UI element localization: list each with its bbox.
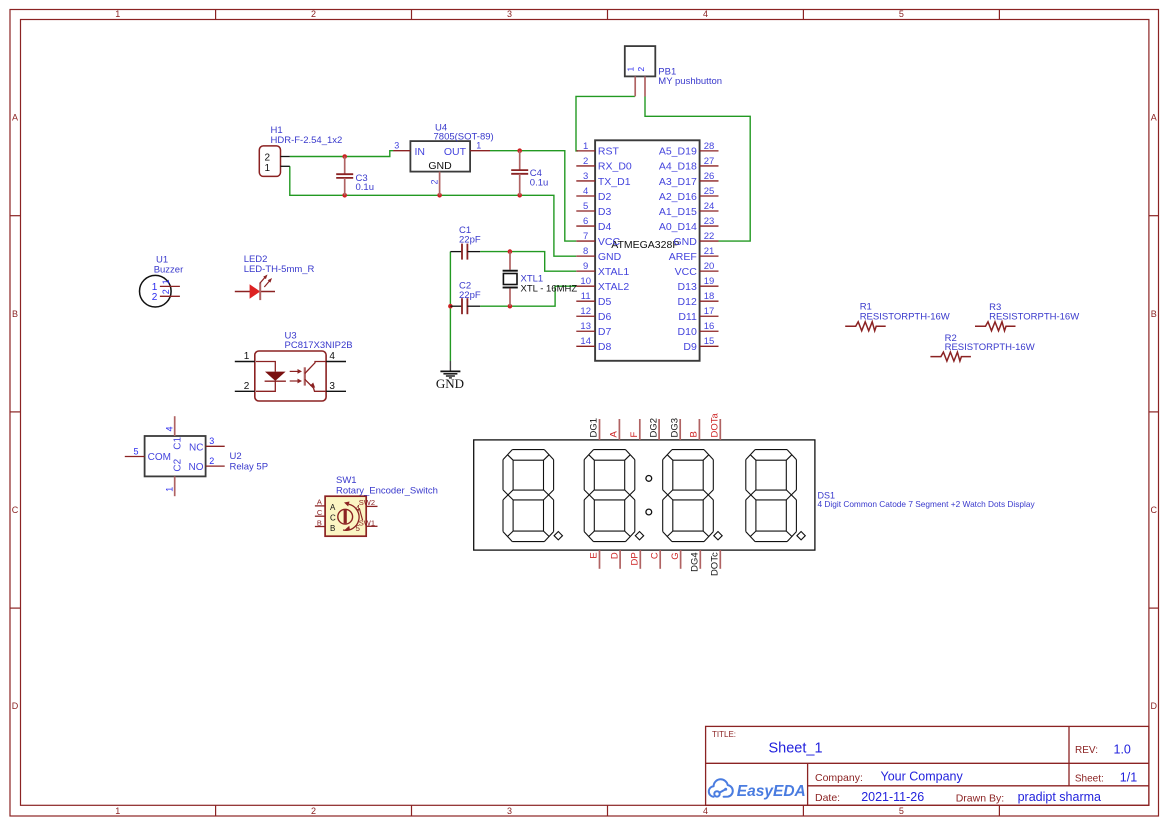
svg-text:7805(SOT-89): 7805(SOT-89) xyxy=(434,131,494,142)
resistor R2 xyxy=(930,333,1034,361)
svg-text:8: 8 xyxy=(583,246,588,257)
svg-text:RX_D0: RX_D0 xyxy=(598,161,632,173)
svg-text:15: 15 xyxy=(704,336,715,347)
pin B xyxy=(698,419,700,440)
pin 1 xyxy=(235,361,255,363)
svg-text:2: 2 xyxy=(311,806,316,816)
svg-text:4: 4 xyxy=(583,186,588,197)
pin C xyxy=(315,515,325,517)
svg-text:D12: D12 xyxy=(678,296,697,308)
svg-text:18: 18 xyxy=(704,291,715,302)
svg-text:25: 25 xyxy=(704,186,715,197)
svg-text:A1_D15: A1_D15 xyxy=(659,206,697,218)
display DS1 4-digit 7-segment xyxy=(474,413,1036,577)
ground GND xyxy=(436,361,464,391)
pin DOTa xyxy=(719,419,721,440)
pin 9 XTAL1 xyxy=(576,270,595,272)
svg-text:5: 5 xyxy=(583,201,588,212)
svg-text:B: B xyxy=(12,309,18,319)
pin SW1 xyxy=(366,525,377,527)
pin 24 A1_D15 xyxy=(700,210,719,212)
pin DP xyxy=(639,550,641,569)
svg-text:4: 4 xyxy=(703,9,708,19)
svg-text:XTAL2: XTAL2 xyxy=(598,281,629,293)
svg-text:C: C xyxy=(317,508,323,517)
svg-text:0.1u: 0.1u xyxy=(356,182,375,193)
svg-text:LED-TH-5mm_R: LED-TH-5mm_R xyxy=(244,264,315,275)
svg-text:3: 3 xyxy=(329,381,335,392)
svg-text:EasyEDA: EasyEDA xyxy=(737,783,806,800)
svg-text:TX_D1: TX_D1 xyxy=(598,176,631,188)
svg-text:RESISTORPTH-16W: RESISTORPTH-16W xyxy=(945,342,1035,353)
svg-text:2: 2 xyxy=(429,179,439,184)
svg-text:VCC: VCC xyxy=(675,266,698,278)
LED LED2 xyxy=(235,254,315,300)
crystal XTL1 xyxy=(503,252,578,307)
junction xyxy=(517,148,522,153)
pin 2 xyxy=(235,390,255,392)
svg-text:DG4: DG4 xyxy=(690,552,701,572)
svg-text:ATMEGA328P: ATMEGA328P xyxy=(611,239,679,251)
pin 15 D9 xyxy=(700,345,719,347)
svg-text:C: C xyxy=(649,552,660,559)
svg-text:GND: GND xyxy=(436,376,464,391)
svg-text:3: 3 xyxy=(209,436,214,446)
colon dots xyxy=(646,476,652,482)
svg-text:5: 5 xyxy=(899,806,904,816)
svg-text:1: 1 xyxy=(165,487,175,492)
svg-text:COM: COM xyxy=(148,452,171,463)
svg-text:C2: C2 xyxy=(172,458,183,471)
svg-text:Buzzer: Buzzer xyxy=(154,264,184,275)
pin 5 xyxy=(125,456,145,458)
svg-text:1: 1 xyxy=(626,67,636,72)
svg-text:4: 4 xyxy=(329,351,335,362)
pin SW2 xyxy=(366,505,377,507)
svg-text:13: 13 xyxy=(580,321,591,332)
svg-text:27: 27 xyxy=(704,156,715,167)
svg-text:GND: GND xyxy=(598,251,622,263)
svg-text:Sheet:: Sheet: xyxy=(1075,773,1104,784)
wire PB1 pin1 to RST xyxy=(576,96,635,150)
svg-text:26: 26 xyxy=(704,171,715,182)
svg-text:D5: D5 xyxy=(598,296,612,308)
svg-text:3: 3 xyxy=(507,806,512,816)
pin 26 A3_D17 xyxy=(700,180,719,182)
svg-text:1/1: 1/1 xyxy=(1120,770,1137,784)
junction xyxy=(508,249,513,254)
svg-text:5: 5 xyxy=(899,9,904,19)
pin 14 D8 xyxy=(576,345,595,347)
junction xyxy=(448,304,453,309)
svg-text:D4: D4 xyxy=(598,221,612,233)
svg-text:19: 19 xyxy=(704,276,715,287)
svg-text:A0_D14: A0_D14 xyxy=(659,221,697,233)
svg-text:23: 23 xyxy=(704,216,715,227)
buzzer U1 xyxy=(140,255,184,308)
junction xyxy=(437,193,442,198)
svg-text:D: D xyxy=(609,552,620,559)
pin E xyxy=(599,550,601,569)
digit at 584 xyxy=(594,449,626,451)
svg-text:XTAL1: XTAL1 xyxy=(598,266,629,278)
svg-text:A3_D17: A3_D17 xyxy=(659,176,697,188)
capacitor C4 xyxy=(511,151,548,196)
svg-text:2: 2 xyxy=(161,289,171,294)
svg-text:0.1u: 0.1u xyxy=(530,177,549,188)
svg-text:2: 2 xyxy=(244,381,250,392)
svg-text:Drawn By:: Drawn By: xyxy=(956,792,1004,804)
svg-text:22pF: 22pF xyxy=(459,290,481,301)
svg-text:B: B xyxy=(689,431,700,437)
pin 11 D5 xyxy=(576,300,595,302)
pin 7 VCC xyxy=(576,240,595,242)
svg-text:7: 7 xyxy=(583,231,588,242)
svg-text:14: 14 xyxy=(580,336,591,347)
svg-text:2021-11-26: 2021-11-26 xyxy=(861,790,924,804)
svg-text:A: A xyxy=(330,503,336,512)
svg-text:24: 24 xyxy=(704,201,715,212)
svg-text:2: 2 xyxy=(152,292,158,303)
svg-text:PC817X3NIP2B: PC817X3NIP2B xyxy=(285,340,353,351)
svg-text:3: 3 xyxy=(507,9,512,19)
pin A xyxy=(315,505,325,507)
connector H1 xyxy=(259,125,342,176)
svg-text:SW2: SW2 xyxy=(359,498,375,507)
svg-text:1: 1 xyxy=(244,351,250,362)
pin 8 GND xyxy=(576,255,595,257)
pin 3 TX_D1 xyxy=(576,180,595,182)
svg-text:17: 17 xyxy=(704,306,715,317)
pin 1 RST xyxy=(576,150,595,152)
svg-text:XTL - 16MHZ: XTL - 16MHZ xyxy=(521,283,578,294)
svg-text:20: 20 xyxy=(704,261,715,272)
pin 4 xyxy=(326,361,346,363)
svg-text:NC: NC xyxy=(189,442,203,453)
microcontroller U ATMEGA328P xyxy=(576,140,718,360)
pin 27 A4_D18 xyxy=(700,165,719,167)
EasyEDA logo xyxy=(709,779,733,797)
svg-text:D8: D8 xyxy=(598,341,612,353)
svg-text:SW1: SW1 xyxy=(336,475,357,486)
svg-text:22pF: 22pF xyxy=(459,234,481,245)
svg-text:11: 11 xyxy=(581,291,591,302)
capacitor C1 xyxy=(450,225,480,260)
wire PB1 pin2 to GND pin22 xyxy=(645,96,750,241)
pin 12 D6 xyxy=(576,315,595,317)
svg-text:C: C xyxy=(12,505,19,515)
svg-text:A: A xyxy=(12,113,18,123)
junction xyxy=(342,193,347,198)
svg-text:1.0: 1.0 xyxy=(1114,743,1131,757)
svg-text:RESISTORPTH-16W: RESISTORPTH-16W xyxy=(860,311,950,322)
svg-text:A2_D16: A2_D16 xyxy=(659,191,697,203)
svg-text:4: 4 xyxy=(703,806,708,816)
svg-text:21: 21 xyxy=(704,246,715,257)
junction xyxy=(508,304,513,309)
svg-text:Sheet_1: Sheet_1 xyxy=(769,741,823,757)
pin B xyxy=(315,526,325,528)
pin 1 xyxy=(174,476,176,496)
regulator U4 7805 xyxy=(393,122,494,195)
junction xyxy=(342,154,347,159)
pin F xyxy=(639,419,641,440)
pin DG2 xyxy=(658,419,660,440)
pin 23 A0_D14 xyxy=(700,225,719,227)
pin 10 XTAL2 xyxy=(576,285,595,287)
svg-text:GND: GND xyxy=(428,160,452,172)
svg-text:SW1: SW1 xyxy=(359,518,375,527)
svg-text:2: 2 xyxy=(583,156,588,167)
svg-text:A: A xyxy=(609,431,620,438)
svg-text:DOTa: DOTa xyxy=(710,413,721,438)
svg-text:VCC: VCC xyxy=(598,236,621,248)
title block xyxy=(706,726,1149,805)
digit at 745.6 xyxy=(755,449,787,451)
pin 5 D3 xyxy=(576,210,595,212)
svg-text:DG2: DG2 xyxy=(648,418,659,438)
svg-text:DOTc: DOTc xyxy=(710,552,721,576)
svg-text:OUT: OUT xyxy=(444,146,467,158)
svg-text:MY pushbutton: MY pushbutton xyxy=(658,76,722,87)
optocoupler U3 xyxy=(235,331,353,402)
svg-text:2: 2 xyxy=(209,456,214,466)
pin 3 xyxy=(326,390,346,392)
pin 3 xyxy=(206,445,225,447)
svg-text:F: F xyxy=(629,432,640,438)
pin 2 xyxy=(206,465,225,467)
svg-text:D7: D7 xyxy=(598,326,612,338)
pin DG1 xyxy=(599,419,601,440)
svg-text:16: 16 xyxy=(704,321,715,332)
pin 21 AREF xyxy=(700,255,719,257)
pin 4 xyxy=(174,416,176,436)
svg-text:5: 5 xyxy=(133,446,138,456)
wire C2 to XTAL2 pin10 xyxy=(480,286,576,306)
svg-text:IN: IN xyxy=(415,146,426,158)
wire C1 to XTAL1 pin9 xyxy=(480,252,576,272)
resistor R3 xyxy=(975,302,1079,331)
svg-text:C: C xyxy=(330,513,336,522)
svg-text:B: B xyxy=(330,524,335,533)
svg-text:DP: DP xyxy=(630,552,641,565)
svg-text:1: 1 xyxy=(583,141,588,152)
svg-text:1: 1 xyxy=(115,9,120,19)
svg-text:Your Company: Your Company xyxy=(881,770,964,784)
svg-text:A: A xyxy=(317,498,322,507)
svg-text:D2: D2 xyxy=(598,191,612,203)
svg-text:Relay 5P: Relay 5P xyxy=(230,462,269,473)
svg-text:10: 10 xyxy=(580,276,591,287)
pin 1 xyxy=(470,150,490,152)
pin 19 D13 xyxy=(700,285,719,287)
svg-text:12: 12 xyxy=(580,306,591,317)
rotary encoder SW1 xyxy=(315,475,438,536)
svg-text:2: 2 xyxy=(311,9,316,19)
svg-text:A4_D18: A4_D18 xyxy=(659,161,697,173)
svg-text:pradipt sharma: pradipt sharma xyxy=(1018,790,1101,804)
relay U2 xyxy=(125,416,268,496)
pushbutton PB1 xyxy=(625,46,722,96)
pin 6 D4 xyxy=(576,225,595,227)
svg-text:3: 3 xyxy=(583,171,588,182)
svg-text:4: 4 xyxy=(165,426,175,431)
svg-text:6: 6 xyxy=(583,216,588,227)
digit at 662.5 xyxy=(672,449,704,451)
svg-text:1: 1 xyxy=(115,806,120,816)
svg-text:D11: D11 xyxy=(678,311,697,323)
svg-text:D9: D9 xyxy=(683,341,697,353)
pin DG3 xyxy=(679,419,681,440)
svg-text:22: 22 xyxy=(704,231,715,242)
svg-text:B: B xyxy=(1151,309,1157,319)
svg-text:E: E xyxy=(589,552,600,558)
svg-text:DG3: DG3 xyxy=(669,418,680,438)
svg-text:9: 9 xyxy=(583,261,588,272)
svg-text:1: 1 xyxy=(161,279,171,284)
svg-text:U2: U2 xyxy=(230,451,242,462)
svg-text:RESISTORPTH-16W: RESISTORPTH-16W xyxy=(989,311,1079,322)
pin 3 xyxy=(393,150,410,152)
pin A xyxy=(618,419,620,440)
wire H1 pin2 to U4 IN xyxy=(290,151,394,157)
svg-text:2: 2 xyxy=(636,67,646,72)
svg-text:Date:: Date: xyxy=(815,792,840,804)
resistor R1 xyxy=(845,302,950,331)
svg-text:A5_D19: A5_D19 xyxy=(659,146,697,158)
junction xyxy=(517,193,522,198)
svg-text:RST: RST xyxy=(598,146,620,158)
svg-text:G: G xyxy=(670,552,681,559)
svg-text:C: C xyxy=(1150,505,1157,515)
pin C xyxy=(659,550,661,569)
pin 2 xyxy=(439,172,441,196)
pin 13 D7 xyxy=(576,330,595,332)
svg-text:HDR-F-2.54_1x2: HDR-F-2.54_1x2 xyxy=(271,135,343,146)
pin 20 VCC xyxy=(700,270,719,272)
svg-text:DG1: DG1 xyxy=(589,418,600,438)
svg-text:D10: D10 xyxy=(678,326,697,338)
svg-text:Company:: Company: xyxy=(815,772,863,784)
svg-text:REV:: REV: xyxy=(1075,745,1098,756)
svg-text:D: D xyxy=(12,701,19,711)
svg-text:D3: D3 xyxy=(598,206,612,218)
pin DOTc xyxy=(719,550,721,569)
wire capacitor rail to ground xyxy=(449,252,451,361)
wire ground rail to GND pin8 xyxy=(290,166,577,256)
pin G xyxy=(680,550,682,569)
pin 17 D11 xyxy=(700,315,719,317)
pin D xyxy=(619,550,621,569)
svg-text:NO: NO xyxy=(189,462,204,473)
svg-text:Rotary_Encoder_Switch: Rotary_Encoder_Switch xyxy=(336,486,438,497)
wire U4 OUT to VCC pin7 xyxy=(490,151,576,241)
svg-text:TITLE:: TITLE: xyxy=(712,730,736,739)
pin DG4 xyxy=(699,550,701,569)
pin 18 D12 xyxy=(700,300,719,302)
svg-text:4 Digit Common Catode 7 Segmen: 4 Digit Common Catode 7 Segment +2 Watch… xyxy=(818,499,1036,509)
digit at 502.8 xyxy=(512,449,544,451)
svg-text:AREF: AREF xyxy=(669,251,697,263)
pin 28 A5_D19 xyxy=(700,150,719,152)
capacitor C2 xyxy=(450,281,480,315)
pin 2 RX_D0 xyxy=(576,165,595,167)
pin 4 D2 xyxy=(576,195,595,197)
pin 16 D10 xyxy=(700,330,719,332)
pin 25 A2_D16 xyxy=(700,195,719,197)
svg-text:C1: C1 xyxy=(172,436,183,449)
svg-text:B: B xyxy=(317,518,322,527)
pin 22 GND xyxy=(700,240,719,242)
svg-text:D6: D6 xyxy=(598,311,612,323)
svg-text:A: A xyxy=(1151,113,1157,123)
svg-text:1: 1 xyxy=(265,163,271,174)
svg-text:D: D xyxy=(1150,701,1157,711)
svg-text:D13: D13 xyxy=(678,281,697,293)
svg-text:3: 3 xyxy=(394,141,399,151)
svg-text:GND: GND xyxy=(673,236,697,248)
capacitor C3 xyxy=(336,157,374,196)
svg-text:28: 28 xyxy=(704,141,715,152)
